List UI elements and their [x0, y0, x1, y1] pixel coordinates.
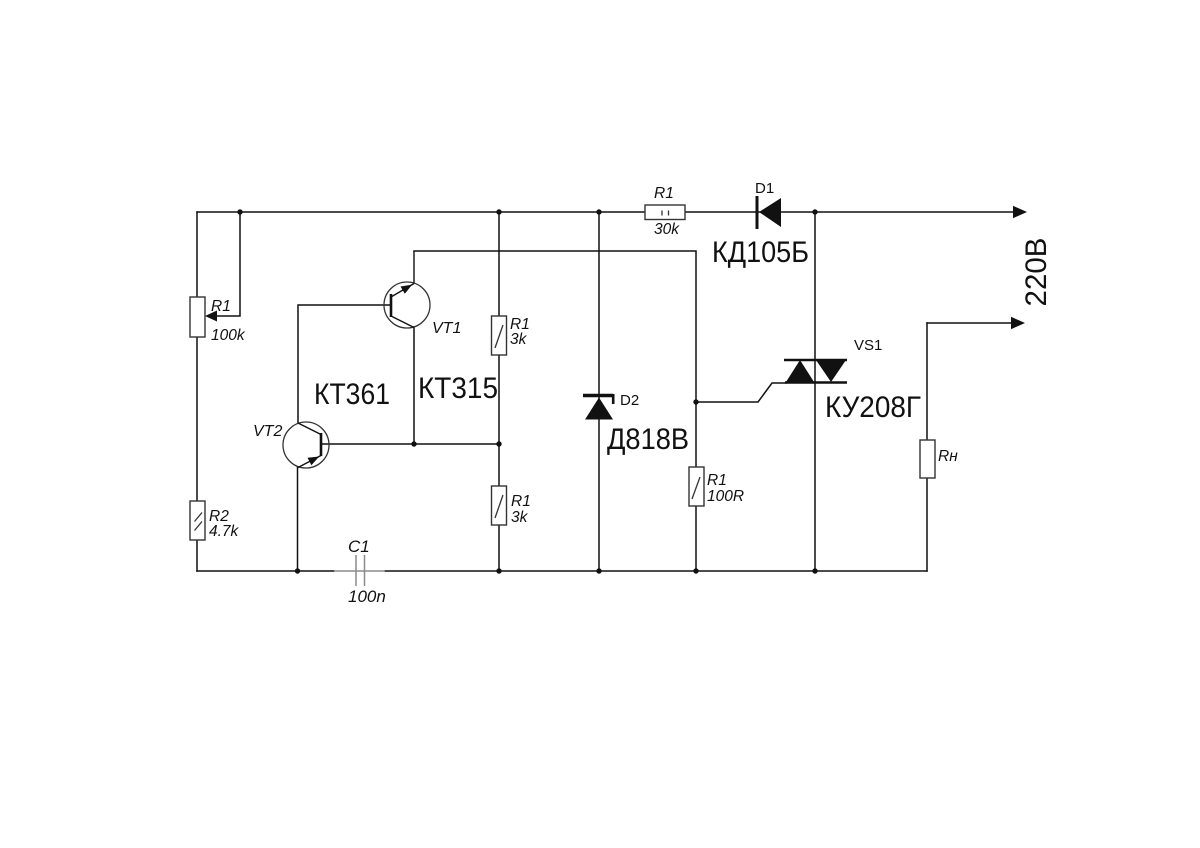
svg-text:КТ361: КТ361 — [314, 378, 390, 411]
resistor R1 100R — [689, 467, 744, 506]
wire left rail — [196, 212, 198, 571]
svg-text:D2: D2 — [620, 392, 639, 409]
svg-text:R1: R1 — [211, 298, 231, 315]
wire top bus 220V — [197, 211, 1014, 213]
wire triac gate — [696, 383, 786, 402]
arrow output lower — [1011, 317, 1025, 329]
svg-text:100k: 100k — [211, 327, 246, 344]
wire output lower — [927, 322, 1012, 324]
junction node bottom triac — [812, 568, 817, 573]
resistor Rn load — [920, 440, 958, 478]
capacitor C1 — [334, 555, 385, 586]
svg-text:R1: R1 — [511, 493, 531, 510]
junction node top D2 — [596, 209, 601, 214]
zener D2 D818V — [583, 392, 689, 456]
resistor R1 100k potentiometer — [190, 297, 246, 344]
svg-text:R1: R1 — [654, 185, 674, 202]
wire potentiometer wiper — [216, 212, 240, 316]
wire VT2 base bus — [322, 443, 499, 445]
svg-text:R1: R1 — [707, 472, 727, 489]
transistor VT2 KT361 — [253, 422, 329, 468]
svg-text:VS1: VS1 — [854, 337, 882, 354]
junction node bottom 3k — [496, 568, 501, 573]
junction node VT1 emitter base bus — [411, 441, 416, 446]
wire column R1-3k divider — [498, 212, 500, 571]
svg-text:220В: 220В — [1020, 238, 1053, 307]
junction node base bus 3k — [496, 441, 501, 446]
svg-text:C1: C1 — [348, 537, 370, 556]
svg-text:3k: 3k — [510, 331, 528, 348]
junction node top 3k — [496, 209, 501, 214]
svg-text:КТ315: КТ315 — [418, 372, 498, 405]
resistor R1 30k — [645, 185, 685, 238]
junction node top wiper — [237, 209, 242, 214]
svg-text:КД105Б: КД105Б — [712, 236, 809, 269]
diode D1 KD105B — [712, 180, 809, 269]
wire VT2 emitter lead — [297, 467, 299, 571]
svg-text:D1: D1 — [755, 180, 774, 197]
resistor R1 3k upper — [492, 316, 530, 355]
svg-text:VT1: VT1 — [432, 320, 461, 337]
triac VS1 KU208G — [784, 337, 921, 424]
transistor VT1 KT315 — [384, 251, 498, 405]
svg-text:4.7k: 4.7k — [209, 523, 240, 540]
junction node gate — [693, 399, 698, 404]
arrow output top 220V — [1013, 206, 1027, 218]
wire VT1 collector to gate column — [414, 251, 696, 571]
svg-text:30k: 30k — [654, 221, 680, 238]
resistor R2 4.7k — [190, 501, 240, 540]
svg-text:КУ208Г: КУ208Г — [825, 391, 921, 424]
svg-text:100R: 100R — [707, 488, 744, 505]
svg-text:VT2: VT2 — [253, 423, 282, 440]
resistor R1 3k lower — [492, 486, 531, 526]
junction node bottom 100R — [693, 568, 698, 573]
svg-text:Rн: Rн — [938, 448, 958, 465]
wire load column — [926, 323, 928, 571]
wire VT1 base to VT2 collector — [298, 305, 391, 423]
wire column D2 — [598, 212, 600, 571]
svg-text:Д818В: Д818В — [607, 423, 689, 456]
wire triac column — [814, 212, 816, 571]
junction node bottom D2 — [596, 568, 601, 573]
junction node bottom VT2 — [295, 568, 300, 573]
svg-text:100n: 100n — [348, 587, 386, 606]
svg-text:3k: 3k — [511, 509, 529, 526]
wire bottom bus — [197, 570, 927, 572]
wire VT1 emitter lead — [413, 327, 415, 444]
junction node top triac — [812, 209, 817, 214]
